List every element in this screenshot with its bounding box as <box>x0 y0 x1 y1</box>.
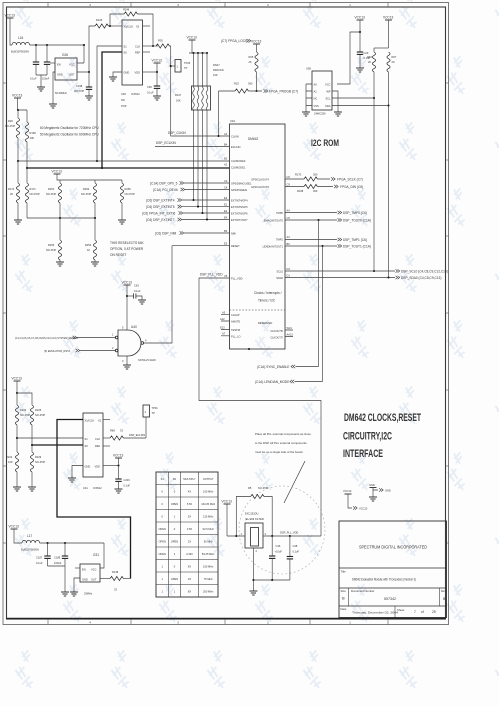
svg-text:EXTINT6/GP6: EXTINT6/GP6 <box>231 212 248 216</box>
wire R138 to X1 riser <box>123 578 130 580</box>
svg-text:0.1uF: 0.1uF <box>134 289 141 293</box>
wire caps to ground (G31) <box>48 566 66 592</box>
capacitor C188 100uF <box>54 543 68 566</box>
ground (caps) <box>37 87 45 91</box>
svg-text:0: 0 <box>174 565 176 569</box>
svg-text:10K: 10K <box>8 460 13 464</box>
svg-text:must be on a single side of th: must be on a single side of the board. <box>255 450 303 454</box>
svg-text:0: 0 <box>174 527 176 531</box>
ground (C29) <box>356 68 364 72</box>
svg-text:CIRCUITRY,I2C: CIRCUITRY,I2C <box>343 431 392 443</box>
svg-text:RPACK4/: RPACK4/ <box>213 68 224 72</box>
svg-text:C46: C46 <box>276 544 281 548</box>
wire U41 REF stub <box>103 445 110 447</box>
wire G26 GND to ground <box>53 72 55 104</box>
wire U41 CLK to R68 <box>103 437 110 439</box>
svg-text:U36: U36 <box>121 92 126 96</box>
svg-text:(C7) FPGA_LOCK: (C7) FPGA_LOCK <box>221 39 248 43</box>
wire U38 SCL to R66 <box>332 97 374 99</box>
svg-text:WP: WP <box>326 90 330 94</box>
svg-text:VCC13: VCC13 <box>222 500 233 504</box>
wire filter input <box>227 535 245 537</box>
svg-text:POP: POP <box>121 104 127 108</box>
frame zone numbers <box>89 3 351 625</box>
svg-text:GND: GND <box>124 71 130 75</box>
capacitor C198 NO POP <box>74 72 92 96</box>
power VCC13 tie symbol <box>343 489 368 511</box>
svg-text:U3A: U3A <box>230 119 235 123</box>
node DSP_EXTINT5 <box>146 205 230 209</box>
svg-text:DSP_PLL_VDD: DSP_PLL_VDD <box>280 531 298 535</box>
oscillator G26 <box>55 53 77 95</box>
svg-text:100uF: 100uF <box>54 561 62 565</box>
wire GP2/CLKOUT6 row <box>285 186 333 188</box>
svg-text:VCC13: VCC13 <box>122 281 133 285</box>
ground (U40) <box>123 365 131 369</box>
ground (C198) <box>85 96 93 100</box>
junction <box>31 444 33 446</box>
junction <box>16 392 18 394</box>
svg-text:C198: C198 <box>76 84 83 88</box>
power VCC13 (PLL filter) <box>222 500 233 537</box>
svg-text:D1: D1 <box>287 273 291 277</box>
svg-text:1: 1 <box>174 515 176 519</box>
svg-text:0.1uF: 0.1uF <box>124 484 131 488</box>
junction <box>101 167 103 169</box>
resistor R250 NO-POP <box>120 180 135 220</box>
border frame bottom thick line <box>7 618 446 620</box>
wire TOUT1 to LENDIAN_MODE <box>322 246 324 382</box>
svg-text:A5: A5 <box>222 311 226 315</box>
svg-text:G31: G31 <box>93 553 99 557</box>
svg-text:ICS512: ICS512 <box>93 486 102 490</box>
svg-text:GND: GND <box>369 483 375 487</box>
svg-text:X2: X2 <box>98 419 102 423</box>
wire TOUT0 row <box>285 219 337 221</box>
junction <box>152 45 154 47</box>
svg-text:60.00MHz: 60.00MHz <box>55 91 68 95</box>
junction <box>46 542 48 544</box>
svg-text:1: 1 <box>161 565 163 569</box>
svg-text:25: 25 <box>432 610 436 614</box>
svg-text:EXTINT4/GP4: EXTINT4/GP4 <box>231 199 248 203</box>
svg-text:DSP_SDA0 (C4,C8,C9,C13): DSP_SDA0 (C4,C8,C9,C13) <box>401 276 441 280</box>
svg-text:Thursday, December 02, 2004: Thursday, December 02, 2004 <box>352 611 398 615</box>
node DSP_GPI0_5 <box>150 181 230 185</box>
svg-text:EMACIN/TOUT0: EMACIN/TOUT0 <box>264 219 284 223</box>
junction <box>59 217 61 219</box>
wire net CLKMODE0 bus <box>18 138 230 161</box>
resistor R222 10K <box>6 452 19 487</box>
wire RN27 col2 to EXTINT5 <box>197 110 199 207</box>
svg-text:C188: C188 <box>54 556 61 560</box>
node DSP_TOUT1 <box>338 244 371 248</box>
svg-text:C9: C9 <box>287 182 291 186</box>
svg-text:0.1uF: 0.1uF <box>293 550 300 554</box>
svg-text:33: 33 <box>114 588 117 592</box>
svg-text:0.1uF: 0.1uF <box>147 91 154 95</box>
EMI filter EXC151DU <box>241 512 267 554</box>
svg-text:C4: C4 <box>224 185 228 189</box>
junction <box>88 71 90 73</box>
svg-text:3: 3 <box>177 620 179 624</box>
capacitor C61 100uF <box>42 45 50 81</box>
svg-text:(C6) DSP_EXTINT7: (C6) DSP_EXTINT7 <box>146 218 175 222</box>
wire net DSP_SCL0 <box>285 270 395 272</box>
capacitor C66 0.1uF <box>147 72 160 96</box>
svg-text:1: 1 <box>161 577 163 581</box>
svg-text:A2: A2 <box>224 163 228 167</box>
junction <box>387 276 389 278</box>
junction <box>96 160 98 162</box>
resistor R171 NO-POP <box>25 168 40 218</box>
svg-text:A4: A4 <box>287 208 291 212</box>
svg-text:EN: EN <box>82 568 86 572</box>
svg-text:(C1A) SYNC_ENABLE: (C1A) SYNC_ENABLE <box>257 365 289 369</box>
test point TP26 <box>170 60 191 73</box>
resistor R252 NO-POP <box>81 180 97 218</box>
svg-text:DM642 Evaluation Module with T: DM642 Evaluation Module with TI Decoders… <box>352 578 416 582</box>
svg-text:NO: NO <box>121 98 125 102</box>
wire G26 OUT to R126 <box>77 26 95 72</box>
svg-text:OPEN: OPEN <box>159 527 166 531</box>
svg-text:3X: 3X <box>188 577 191 581</box>
svg-text:R223: R223 <box>20 408 27 412</box>
resistor R223 NO-POP <box>15 393 30 452</box>
junction <box>109 25 111 27</box>
svg-text:MULTIPLY: MULTIPLY <box>183 477 196 481</box>
svg-text:GND: GND <box>85 465 91 469</box>
svg-text:SDA0: SDA0 <box>276 276 283 280</box>
wire R66 to SCL net <box>373 98 375 271</box>
svg-text:R229: R229 <box>35 455 42 459</box>
svg-text:R222: R222 <box>6 455 13 459</box>
svg-text:(C1,C4,C5,C6,C7,C8,C9,D5,C12,C: (C1,C4,C5,C6,C7,C8,C9,D5,C12,C13) SYSTEM… <box>15 337 79 340</box>
svg-text:2: 2 <box>256 549 258 553</box>
wire VCC to U38 <box>337 32 360 84</box>
svg-text:AMUTE: AMUTE <box>231 320 240 324</box>
svg-text:C6: C6 <box>287 175 291 179</box>
svg-text:THIS RESELECTS 64K: THIS RESELECTS 64K <box>110 241 145 245</box>
svg-text:SN74LVC1G00: SN74LVC1G00 <box>138 358 156 362</box>
wire TMP0 row <box>285 212 337 214</box>
resistor R66 2K <box>367 48 376 98</box>
wire U38 SDA to R67 <box>332 105 389 107</box>
node SYNC_ENABLE <box>257 365 319 369</box>
svg-text:2K: 2K <box>249 60 252 64</box>
svg-text:NO-POP: NO-POP <box>20 413 31 417</box>
svg-text:NO-POP: NO-POP <box>35 460 46 464</box>
svg-text:Document Number: Document Number <box>351 589 375 593</box>
ground GND tie symbol <box>369 483 391 501</box>
svg-text:0.1uF: 0.1uF <box>30 77 37 81</box>
ground (R253) <box>56 262 64 266</box>
svg-text:R30: R30 <box>158 39 163 43</box>
wire U41 S0 (thick) <box>32 444 83 446</box>
svg-text:RESET: RESET <box>231 244 240 248</box>
wire option bus <box>27 217 95 219</box>
svg-text:I2C ROM: I2C ROM <box>311 138 339 149</box>
inductor L16 <box>11 36 30 54</box>
svg-text:DSP_ECLKIN: DSP_ECLKIN <box>156 141 177 145</box>
svg-text:VCC13: VCC13 <box>12 377 23 381</box>
svg-text:TP: TP <box>152 411 156 415</box>
svg-text:R252: R252 <box>83 187 90 191</box>
ground (U36) <box>109 77 117 81</box>
svg-text:DSP_TOUT1 (C1A): DSP_TOUT1 (C1A) <box>343 245 371 249</box>
svg-text:OUT: OUT <box>91 578 97 582</box>
svg-text:VCC13: VCC13 <box>343 489 352 493</box>
oscillator G31 <box>80 553 100 596</box>
svg-text:CLK: CLK <box>95 437 100 441</box>
junction <box>206 52 208 54</box>
svg-text:R25: R25 <box>234 82 239 86</box>
svg-text:NO-POP: NO-POP <box>46 192 57 196</box>
svg-text:AA21: AA21 <box>287 333 294 337</box>
svg-text:X1/ICLK: X1/ICLK <box>124 25 134 29</box>
svg-text:R225: R225 <box>35 408 42 412</box>
ground (G31) <box>70 592 78 596</box>
svg-text:S0: S0 <box>85 444 89 448</box>
junction <box>217 135 219 137</box>
wire net DSP_ECLKIN (U41) <box>123 437 146 439</box>
capacitor C187 0.1uF <box>36 543 51 566</box>
wire NAND out to RESET <box>172 245 230 247</box>
svg-text:+10uF: +10uF <box>275 550 283 554</box>
svg-text:R26: R26 <box>8 119 13 123</box>
svg-text:0: 0 <box>161 490 163 494</box>
ground (PLL filter) <box>249 591 257 595</box>
svg-text:4: 4 <box>89 3 91 7</box>
resistor R65 2K <box>249 52 259 91</box>
svg-text:50 Megahertz Oscillator for 60: 50 Megahertz Oscillator for 600MHz CPU <box>40 133 99 137</box>
svg-text:1: 1 <box>161 590 163 594</box>
svg-text:DSP_TMP0 (C6): DSP_TMP0 (C6) <box>343 211 367 215</box>
power VCC13 (pull bank upper) <box>12 94 27 111</box>
wire RN27 col3 to EXTINT6 <box>202 110 204 213</box>
wire U36 S0 (thick) <box>102 52 122 168</box>
svg-text:OPEN: OPEN <box>159 540 166 544</box>
svg-text:DM642: DM642 <box>248 137 259 141</box>
svg-text:CLKIN: CLKIN <box>231 135 239 139</box>
svg-text:6X: 6X <box>188 565 191 569</box>
junction <box>64 542 66 544</box>
wire VCC13 to L16 <box>10 18 12 45</box>
svg-text:62.5 MHz: 62.5 MHz <box>203 527 215 531</box>
svg-text:C5: C5 <box>287 216 291 220</box>
svg-text:SPECTRUM DIGITAL INCORPORATED: SPECTRUM DIGITAL INCORPORATED <box>359 545 427 551</box>
svg-text:(C6) DSP_EXTINT5: (C6) DSP_EXTINT5 <box>146 205 175 209</box>
svg-text:133.25 MHz: 133.25 MHz <box>201 502 216 506</box>
svg-text:VCC: VCC <box>91 568 97 572</box>
wire G31 VCC to rail <box>100 543 104 568</box>
svg-text:1: 1 <box>145 410 147 414</box>
frame zone ticks top <box>48 3 388 8</box>
wire U38 WP <box>332 91 338 112</box>
svg-text:NO-POP: NO-POP <box>35 413 46 417</box>
svg-text:GND: GND <box>385 489 391 493</box>
svg-text:4: 4 <box>89 620 91 624</box>
svg-text:TP31: TP31 <box>152 406 159 410</box>
junction <box>35 44 37 46</box>
svg-text:VCC13: VCC13 <box>355 16 366 20</box>
svg-text:G26: G26 <box>62 53 68 57</box>
power VCC13 (I2C right) <box>383 16 394 49</box>
svg-text:3: 3 <box>122 359 124 363</box>
wire R126 to U36 X1 <box>108 25 122 27</box>
wire net DSP_PLL_VDD <box>199 278 321 536</box>
wire R67 to SDA net <box>388 106 390 278</box>
svg-text:R171: R171 <box>30 187 37 191</box>
wire TOUT0 to SYNC_ENABLE <box>318 220 320 367</box>
svg-text:VCC13: VCC13 <box>251 40 262 44</box>
svg-text:L17: L17 <box>27 534 33 538</box>
svg-text:Place all PLL external compone: Place all PLL external components as clo… <box>255 432 311 436</box>
resistor R169 10K <box>25 110 36 168</box>
IC U3A DM642 <box>230 119 286 349</box>
node FPGA_SCLK <box>331 177 363 181</box>
svg-text:8X: 8X <box>188 590 191 594</box>
svg-text:GND: GND <box>82 578 88 582</box>
svg-text:R5: R5 <box>248 486 252 490</box>
wire GP0/CLKOUT4 row <box>285 178 330 180</box>
svg-text:CLKMODE0: CLKMODE0 <box>231 159 246 163</box>
capacitor C46 +10uF <box>269 536 282 580</box>
junction <box>289 535 291 537</box>
pointer line note to filter <box>284 461 305 503</box>
svg-text:to the DSP. All PLL external c: to the DSP. All PLL external components <box>255 441 307 445</box>
svg-text:1K: 1K <box>87 248 90 252</box>
node DSP_TMP1 <box>338 238 367 242</box>
node FPGA_DIN <box>334 185 363 189</box>
wire RN27 top bar <box>189 52 208 54</box>
resistor R229 NO-POP <box>30 452 45 487</box>
border frame inner <box>7 7 446 619</box>
svg-text:A12: A12 <box>220 317 225 321</box>
junction <box>192 52 194 54</box>
nand gate U40 <box>112 325 156 363</box>
svg-text:(C1A) LENDIAN_MODE: (C1A) LENDIAN_MODE <box>255 380 289 384</box>
svg-text:A7: A7 <box>222 332 226 336</box>
svg-text:OPEN: OPEN <box>171 540 178 544</box>
capacitor C38 0.1uF <box>287 536 300 580</box>
svg-text:4X: 4X <box>188 490 191 494</box>
wire U36 X2 stub <box>143 25 151 27</box>
svg-text:EXTINT5/GP5: EXTINT5/GP5 <box>231 205 248 209</box>
svg-text:R168: R168 <box>297 189 304 193</box>
wire U36 CLK to R30 <box>143 45 159 47</box>
svg-text:200 MHz: 200 MHz <box>203 590 214 594</box>
svg-text:GP0/DMAOUSEL: GP0/DMAOUSEL <box>231 182 252 186</box>
svg-text:S1: S1 <box>161 477 165 481</box>
svg-text:A3: A3 <box>287 235 291 239</box>
IC U38 24WC256 <box>306 67 332 116</box>
ground (C246) <box>115 489 123 493</box>
svg-text:C246: C246 <box>124 478 131 482</box>
svg-text:VCC13: VCC13 <box>52 170 63 174</box>
svg-text:TMP1: TMP1 <box>276 238 283 242</box>
junction <box>373 270 375 272</box>
svg-text:100 MHz: 100 MHz <box>203 490 214 494</box>
resistor R126 <box>95 18 108 28</box>
ground (C63) <box>138 300 146 304</box>
junction <box>359 31 361 33</box>
capacitor C60 0.1uF <box>30 45 39 81</box>
svg-text:C63: C63 <box>134 284 139 288</box>
svg-text:VDD: VDD <box>95 465 101 469</box>
svg-text:5: 5 <box>122 326 124 330</box>
svg-text:FPGA_PROGB (C7): FPGA_PROGB (C7) <box>269 90 298 94</box>
wire U41 S1 <box>17 437 83 439</box>
junction (DM642 bottom) <box>248 348 250 350</box>
resistor R254 1K <box>85 218 97 262</box>
wire G31 EN stub <box>75 567 80 569</box>
svg-text:VCC13: VCC13 <box>152 59 163 63</box>
svg-text:Date: Date <box>341 607 347 611</box>
border frame outer <box>3 3 449 625</box>
junction <box>46 44 48 46</box>
power VCC13 (R65) <box>251 40 262 53</box>
resistor R253 NO-POP <box>46 218 62 262</box>
svg-text:2: 2 <box>267 620 269 624</box>
svg-text:5.5X: 5.5X <box>187 502 193 506</box>
svg-text:INTERFACE: INTERFACE <box>343 448 383 460</box>
svg-text:CLKOUT7/: CLKOUT7/ <box>270 336 283 340</box>
svg-text:(5) EMULATOR_RSTA: (5) EMULATOR_RSTA <box>44 349 70 353</box>
wire R66/R67 top rail <box>374 47 389 49</box>
svg-text:50 MHz: 50 MHz <box>204 540 214 544</box>
svg-text:NO-POP: NO-POP <box>125 192 136 196</box>
svg-text:GND: GND <box>57 73 63 77</box>
svg-text:DSP_TOUT0 (C1A): DSP_TOUT0 (C1A) <box>343 219 371 223</box>
ground (G31 caps) <box>61 592 69 596</box>
svg-text:GP0/CLKOUT4: GP0/CLKOUT4 <box>251 178 269 182</box>
svg-text:4: 4 <box>145 339 147 343</box>
junction <box>94 217 96 219</box>
svg-text:OPTION, 0 AT POWER: OPTION, 0 AT POWER <box>110 247 144 251</box>
wire G26 VCC to rail <box>77 45 84 63</box>
junction <box>117 464 119 466</box>
junction <box>17 160 19 162</box>
svg-text:TP26: TP26 <box>184 61 191 65</box>
svg-text:NMI: NMI <box>231 232 236 236</box>
resistor R172 2K <box>8 161 20 220</box>
node DSP_SCL0 <box>396 269 448 273</box>
svg-text:R169: R169 <box>30 131 37 135</box>
junction <box>156 71 158 73</box>
svg-text:EN: EN <box>57 63 61 67</box>
svg-text:VCC13: VCC13 <box>187 36 198 40</box>
svg-text:NO-POP: NO-POP <box>46 248 57 252</box>
svg-text:2K: 2K <box>368 60 371 64</box>
svg-text:C66: C66 <box>147 85 152 89</box>
svg-text:REF: REF <box>95 444 101 448</box>
svg-text:2: 2 <box>267 3 269 7</box>
power VCC13 (top-left) <box>5 14 16 19</box>
node PCI_DEVA <box>153 188 230 192</box>
svg-text:R67: R67 <box>392 55 397 59</box>
svg-text:S0: S0 <box>173 477 177 481</box>
svg-text:75 MHz: 75 MHz <box>204 577 214 581</box>
wire U40 gnd <box>126 356 128 365</box>
svg-text:B: B <box>342 596 345 601</box>
svg-text:OUTPUT: OUTPUT <box>203 477 214 481</box>
svg-text:(C6) DSP_EXTINT4: (C6) DSP_EXTINT4 <box>146 199 175 203</box>
svg-text:Clocks / Interrupts /: Clocks / Interrupts / <box>254 291 282 295</box>
svg-text:R126: R126 <box>96 18 103 22</box>
resistor R138 33 <box>110 570 123 592</box>
svg-text:1: 1 <box>349 620 351 624</box>
